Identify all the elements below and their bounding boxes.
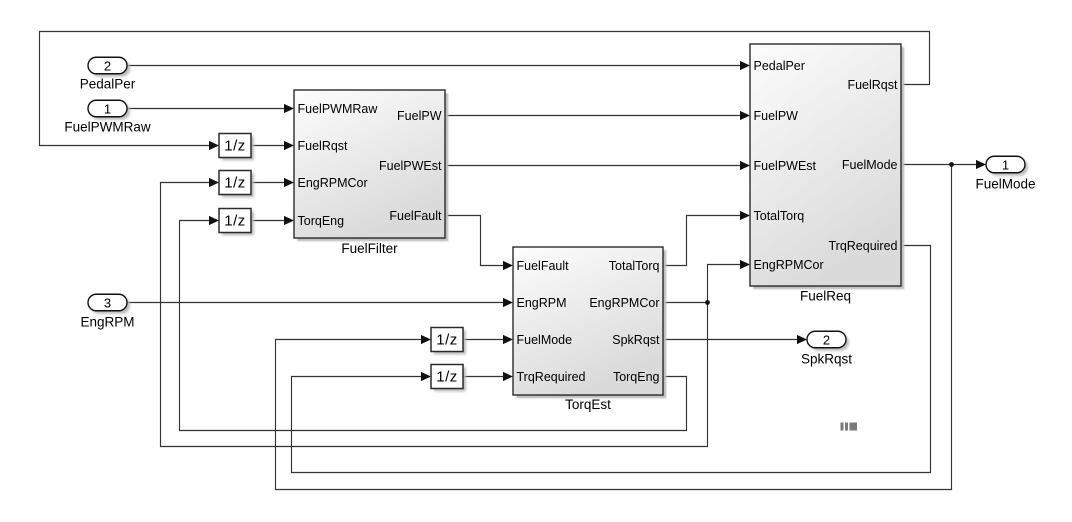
svg-text:FuelFault: FuelFault	[517, 259, 570, 273]
svg-text:FuelRqst: FuelRqst	[298, 139, 349, 153]
svg-text:FuelPW: FuelPW	[754, 109, 799, 123]
svg-text:FuelReq: FuelReq	[800, 289, 851, 304]
svg-text:1/z: 1/z	[436, 332, 458, 349]
svg-text:EngRPM: EngRPM	[517, 296, 567, 310]
svg-text:FuelMode: FuelMode	[842, 158, 898, 172]
svg-text:TorqEst: TorqEst	[565, 397, 611, 412]
unit delay Z3 (1/z)	[219, 209, 254, 236]
inport PedalPer (port 2)	[88, 57, 130, 77]
wire FuelRqst loop FuelReq to Z1	[40, 32, 930, 151]
unit delay Z2 (1/z)	[219, 171, 254, 198]
svg-text:2: 2	[104, 58, 111, 73]
outport FuelMode (port 1)	[986, 156, 1028, 176]
svg-text:1/z: 1/z	[436, 369, 458, 386]
svg-text:FuelPWMRaw: FuelPWMRaw	[64, 120, 151, 135]
svg-text:FuelFault: FuelFault	[389, 209, 442, 223]
wire FuelMode FuelReq to outport	[901, 160, 986, 169]
svg-text:EngRPMCor: EngRPMCor	[298, 176, 368, 190]
junction dot FuelMode net	[949, 162, 954, 167]
svg-text:TotalTorq: TotalTorq	[754, 209, 805, 223]
unit delay Z5 (1/z)	[431, 365, 466, 392]
svg-text:FuelPW: FuelPW	[397, 109, 442, 123]
inport EngRPM (port 3)	[88, 294, 130, 314]
wire Z1 to FuelFilter.FuelRqst	[251, 141, 294, 150]
wire FuelPWEst FuelFilter to FuelReq	[445, 161, 750, 170]
wire FuelMode loop to Z4	[276, 165, 952, 490]
subsystem TorqEst	[513, 247, 666, 398]
unit delay Z1 (1/z)	[219, 134, 254, 161]
svg-text:FuelFilter: FuelFilter	[341, 241, 398, 256]
svg-text:2: 2	[823, 332, 830, 347]
svg-text:1/z: 1/z	[224, 138, 246, 155]
wire EngRPMCor loop TorqEst to Z2	[161, 178, 708, 447]
svg-text:TorqEng: TorqEng	[613, 370, 660, 384]
wire TorqEng loop TorqEst to Z3	[180, 216, 687, 431]
svg-text:EngRPMCor: EngRPMCor	[754, 258, 824, 272]
svg-text:1: 1	[1002, 157, 1009, 172]
model badge (three gray bars)	[841, 423, 858, 431]
wire FuelPW FuelFilter to FuelReq	[445, 111, 750, 120]
wire FuelPWMRaw to FuelFilter	[127, 104, 294, 113]
junction dot EngRPMCor net	[705, 300, 710, 305]
inport FuelPWMRaw (port 1)	[88, 100, 130, 120]
wire Z3 to FuelFilter.TorqEng	[251, 216, 294, 225]
outport SpkRqst (port 2)	[807, 331, 849, 351]
wire Z5 to TorqEst.TrqRequired	[463, 372, 513, 381]
wire Z4 to TorqEst.FuelMode	[463, 335, 513, 344]
wire TrqRequired loop FuelReq to Z5	[292, 246, 931, 473]
wire PedalPer to FuelReq	[127, 61, 750, 70]
svg-text:FuelMode: FuelMode	[975, 177, 1035, 192]
unit delay Z4 (1/z)	[431, 328, 466, 355]
svg-text:FuelPWMRaw: FuelPWMRaw	[298, 102, 379, 116]
svg-text:TrqRequired: TrqRequired	[828, 239, 897, 253]
svg-text:TorqEng: TorqEng	[298, 214, 345, 228]
wire Z2 to FuelFilter.EngRPMCor	[251, 178, 294, 187]
svg-text:EngRPMCor: EngRPMCor	[589, 296, 659, 310]
svg-text:FuelRqst: FuelRqst	[847, 78, 898, 92]
svg-text:SpkRqst: SpkRqst	[801, 352, 852, 367]
svg-text:FuelMode: FuelMode	[517, 333, 573, 347]
svg-text:1/z: 1/z	[224, 175, 246, 192]
svg-text:FuelPWEst: FuelPWEst	[379, 159, 442, 173]
wire EngRPMCor branch to FuelReq	[708, 260, 751, 303]
svg-text:PedalPer: PedalPer	[80, 77, 136, 92]
svg-text:1: 1	[104, 101, 111, 116]
subsystem FuelFilter	[294, 90, 448, 241]
svg-text:3: 3	[104, 295, 111, 310]
svg-text:EngRPM: EngRPM	[80, 315, 134, 330]
svg-text:TrqRequired: TrqRequired	[517, 370, 586, 384]
svg-text:TotalTorq: TotalTorq	[609, 259, 660, 273]
svg-text:PedalPer: PedalPer	[754, 59, 805, 73]
wire FuelFault FuelFilter to TorqEst	[445, 216, 513, 271]
svg-text:1/z: 1/z	[224, 213, 246, 230]
wire SpkRqst TorqEst to outport	[663, 335, 807, 344]
svg-text:SpkRqst: SpkRqst	[612, 333, 660, 347]
subsystem FuelReq	[750, 44, 904, 289]
wire TotalTorq TorqEst to FuelReq	[663, 211, 750, 266]
svg-text:FuelPWEst: FuelPWEst	[754, 159, 817, 173]
wire EngRPM to TorqEst	[127, 298, 513, 307]
